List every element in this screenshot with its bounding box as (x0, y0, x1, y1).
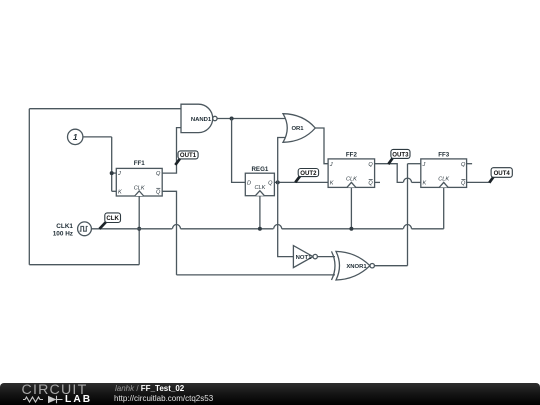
node: junction NAND1 output branch (230, 117, 234, 121)
wire: NOT1 output to XNOR1 input A (317, 256, 335, 258)
wire: REG1 Q up to OR1 input B (278, 138, 287, 183)
flag OUT1 (175, 158, 181, 165)
wire: stub to FF1 J (112, 172, 117, 174)
gate XNOR1 body (336, 251, 370, 280)
wire: left loop top horizontal (CLK net to NAND1 input A) (29, 108, 181, 110)
XNOR1 input arc (332, 251, 336, 280)
wire: left loop vertical (28, 109, 30, 265)
wire: REG1 Q to FF2 K (274, 181, 328, 183)
wire: left loop bottom horizontal (29, 264, 139, 266)
flag OUT3 (388, 157, 393, 165)
wire: FF2 CLK vertical (350, 187, 352, 228)
node: junction at FF1 J (110, 171, 114, 175)
wire: NAND1 output to OR1 input A (217, 118, 287, 120)
REG1 clock caret (255, 191, 264, 196)
gate OR1 body (283, 114, 315, 143)
flag OUT4 (489, 175, 494, 182)
wire: FF2 Qbar stub (375, 181, 380, 183)
footer url line 2 (114, 394, 213, 403)
wire: FF3 Q stub (467, 163, 473, 165)
wire: FF1 CLK vertical (138, 196, 140, 265)
NAND1 output bubble (213, 116, 217, 120)
node: junction FF2 CLK on clock bus (349, 227, 353, 231)
wire: OR1 output to FF2 J (315, 128, 328, 164)
node: junction REG1 Q branch (276, 180, 280, 184)
NOT1 output bubble (313, 254, 317, 258)
logic-1 source V1 (68, 129, 83, 144)
flip-flop FF1 body (116, 168, 162, 196)
wire: clock bus from CLK1 to FF3 CLK with hops (91, 228, 172, 230)
clock source CLK1 (78, 222, 92, 236)
gate NOT1 body (293, 246, 313, 268)
wire: FF2 Q to FF3 K with hop (375, 164, 404, 183)
logo resistor squiggle and diode (23, 396, 63, 403)
FF1 clock caret (135, 191, 144, 196)
footer credit line 1 (115, 384, 184, 393)
wire: REG1 Q down to NOT1 input (278, 182, 294, 256)
wire: logic-1 source to FF1 J/K column (83, 136, 112, 138)
wire: XNOR1 output to FF3 J (375, 265, 408, 267)
wire: FF3 Qbar to OUT4 (467, 181, 490, 183)
FF3 clock caret (439, 182, 448, 187)
flip-flop FF2 body (328, 159, 375, 188)
gate NAND1 body (181, 104, 213, 132)
node: junction FF1 CLK on clock bus (137, 227, 141, 231)
node: junction REG1 CLK on clock bus (258, 227, 262, 231)
FF2 clock caret (347, 182, 356, 187)
wire: stub to FF1 K (112, 190, 117, 192)
footer bar (0, 383, 540, 405)
wire: FF1 Qbar down to XNOR1 input B (162, 191, 176, 275)
flip-flop REG1 body (245, 173, 274, 196)
wire: REG1 CLK vertical (259, 196, 261, 229)
flag CLK (99, 222, 106, 229)
CircuitLab logo (22, 382, 88, 398)
wire: NAND1 output down to REG1 D (232, 119, 246, 183)
wire: FF1 Q up to NAND1 input B (162, 128, 181, 174)
flag OUT2 (295, 175, 301, 182)
flip-flop FF3 body (421, 159, 467, 188)
XNOR1 output bubble (370, 264, 374, 268)
